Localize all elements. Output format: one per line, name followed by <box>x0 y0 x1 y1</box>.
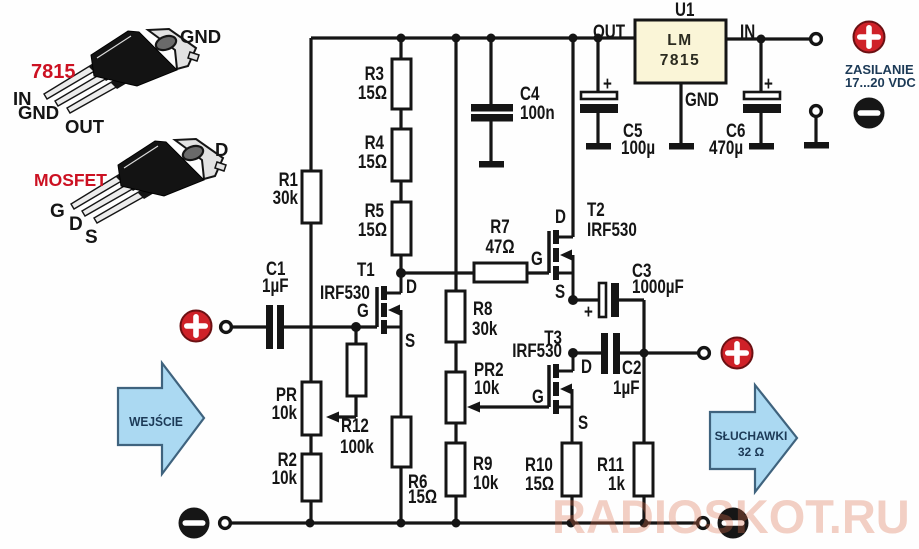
svg-text:10k: 10k <box>474 376 500 398</box>
svg-text:1µF: 1µF <box>262 274 288 296</box>
svg-text:15Ω: 15Ω <box>525 472 554 494</box>
svg-text:GND: GND <box>685 88 719 110</box>
svg-text:7815: 7815 <box>660 52 700 69</box>
svg-text:1000µF: 1000µF <box>632 275 684 297</box>
svg-text:IRF530: IRF530 <box>587 218 637 240</box>
svg-text:R12: R12 <box>341 414 369 436</box>
svg-text:+: + <box>603 72 612 94</box>
svg-text:S: S <box>555 280 565 302</box>
svg-text:7815: 7815 <box>31 61 76 83</box>
svg-text:LM: LM <box>667 32 692 49</box>
svg-text:30k: 30k <box>472 317 498 339</box>
svg-text:GND: GND <box>180 26 221 47</box>
svg-text:T1: T1 <box>357 258 375 280</box>
svg-text:GND: GND <box>18 102 59 123</box>
svg-text:15Ω: 15Ω <box>358 81 387 103</box>
svg-text:470µ: 470µ <box>709 136 743 158</box>
svg-text:D: D <box>581 355 592 377</box>
svg-text:U1: U1 <box>675 0 695 20</box>
svg-text:R7: R7 <box>490 215 509 237</box>
svg-text:15Ω: 15Ω <box>408 485 437 507</box>
svg-text:1µF: 1µF <box>613 376 639 398</box>
svg-text:G: G <box>532 385 544 407</box>
svg-text:+: + <box>584 300 593 322</box>
svg-text:15Ω: 15Ω <box>358 150 387 172</box>
svg-text:SŁUCHAWKI: SŁUCHAWKI <box>715 429 788 443</box>
svg-text:100n: 100n <box>520 101 555 123</box>
svg-text:T2: T2 <box>587 198 605 220</box>
svg-text:32 Ω: 32 Ω <box>738 445 765 459</box>
svg-text:MOSFET: MOSFET <box>34 170 107 190</box>
svg-text:S: S <box>85 227 98 248</box>
svg-text:OUT: OUT <box>593 20 625 42</box>
svg-text:10k: 10k <box>272 466 298 488</box>
svg-text:100µ: 100µ <box>621 136 655 158</box>
svg-text:G: G <box>531 247 543 269</box>
svg-text:+: + <box>764 72 773 94</box>
svg-text:30k: 30k <box>273 186 299 208</box>
svg-text:WEJŚCIE: WEJŚCIE <box>129 414 183 430</box>
svg-text:47Ω: 47Ω <box>485 235 514 257</box>
svg-text:D: D <box>69 214 83 235</box>
svg-text:G: G <box>357 299 369 321</box>
svg-text:D: D <box>406 275 417 297</box>
svg-text:15Ω: 15Ω <box>358 218 387 240</box>
svg-text:D: D <box>555 205 566 227</box>
svg-text:D: D <box>215 139 228 160</box>
svg-text:17...20 VDC: 17...20 VDC <box>845 75 916 90</box>
svg-text:G: G <box>50 201 65 222</box>
svg-text:100k: 100k <box>340 435 374 457</box>
svg-text:10k: 10k <box>473 471 499 493</box>
svg-text:S: S <box>405 329 415 351</box>
svg-text:C2: C2 <box>622 356 641 378</box>
svg-text:RADIOSKOT.RU: RADIOSKOT.RU <box>552 490 910 543</box>
svg-text:S: S <box>578 411 588 433</box>
svg-text:OUT: OUT <box>65 116 105 137</box>
svg-text:10k: 10k <box>272 401 298 423</box>
svg-text:IRF530: IRF530 <box>512 339 562 361</box>
svg-text:R8: R8 <box>473 297 493 319</box>
svg-text:IN: IN <box>740 20 755 42</box>
